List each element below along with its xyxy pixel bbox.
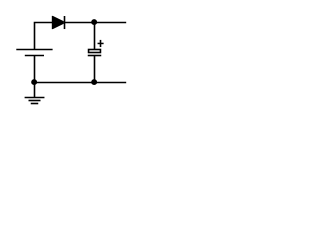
battery BT1 negative plate (short): [25, 55, 44, 57]
capacitor C1 positive plate (open box): [89, 50, 101, 53]
wire battery negative lead: [34, 56, 36, 83]
capacitor C1 polarity plus sign: [98, 40, 104, 47]
capacitor C1 negative plate: [88, 55, 102, 57]
node junction bottom left (battery/ground): [31, 79, 37, 85]
battery BT1 positive plate (long): [16, 49, 52, 51]
ground: [25, 98, 45, 104]
wire ground stub: [34, 83, 36, 98]
wire capacitor positive lead: [94, 23, 96, 50]
node junction top (diode/capacitor): [91, 19, 97, 25]
wire bottom return rail: [35, 82, 127, 84]
wire diode cathode to top output rail: [65, 22, 127, 24]
diode D1: [52, 16, 65, 29]
wire capacitor negative lead: [94, 56, 96, 83]
wire battery positive lead and top-left corner: [35, 23, 53, 50]
node junction bottom right (capacitor/rail): [91, 79, 97, 85]
